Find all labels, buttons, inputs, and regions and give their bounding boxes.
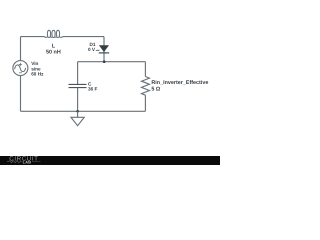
svg-text:50 nH: 50 nH bbox=[46, 50, 61, 56]
svg-text:Rin_Inverter_Effective: Rin_Inverter_Effective bbox=[151, 80, 208, 86]
inductor L bbox=[44, 30, 63, 37]
CircuitLab watermark bar bbox=[0, 156, 220, 166]
wire capacitor bottom vertical bbox=[77, 88, 79, 111]
wire middle horizontal bbox=[78, 61, 146, 63]
voltage source sine wave bbox=[15, 65, 26, 72]
wire top-left horizontal bbox=[21, 36, 45, 38]
svg-text:LAB: LAB bbox=[23, 160, 32, 164]
voltage source Vin circle bbox=[13, 61, 28, 76]
wire capacitor top vertical bbox=[77, 62, 79, 84]
wire bottom horizontal bbox=[21, 110, 146, 112]
wire left vertical upper bbox=[20, 37, 22, 61]
svg-text:0 V: 0 V bbox=[88, 47, 96, 52]
wire resistor top lead bbox=[144, 62, 146, 77]
junction node at capacitor/ground bbox=[76, 110, 79, 113]
wire left vertical lower bbox=[20, 76, 22, 112]
diode D1 bbox=[99, 45, 110, 53]
resistor Rin_Inverter_Effective zigzag bbox=[142, 77, 150, 96]
voltage source minus sign bbox=[19, 72, 22, 74]
wire diode vertical bbox=[103, 37, 105, 62]
ground bbox=[71, 117, 84, 125]
junction node at diode output bbox=[103, 60, 106, 63]
capacitor C bbox=[69, 84, 87, 87]
svg-text:5 Ω: 5 Ω bbox=[151, 86, 160, 92]
svg-text:36 F: 36 F bbox=[88, 86, 98, 91]
wire top-right horizontal bbox=[63, 36, 104, 38]
svg-text:60 Hz: 60 Hz bbox=[31, 71, 44, 76]
voltage source plus sign bbox=[19, 63, 22, 66]
wire resistor bottom lead bbox=[144, 95, 146, 111]
annotation leader for 0 V bbox=[96, 49, 100, 51]
ground stub bbox=[77, 111, 79, 117]
